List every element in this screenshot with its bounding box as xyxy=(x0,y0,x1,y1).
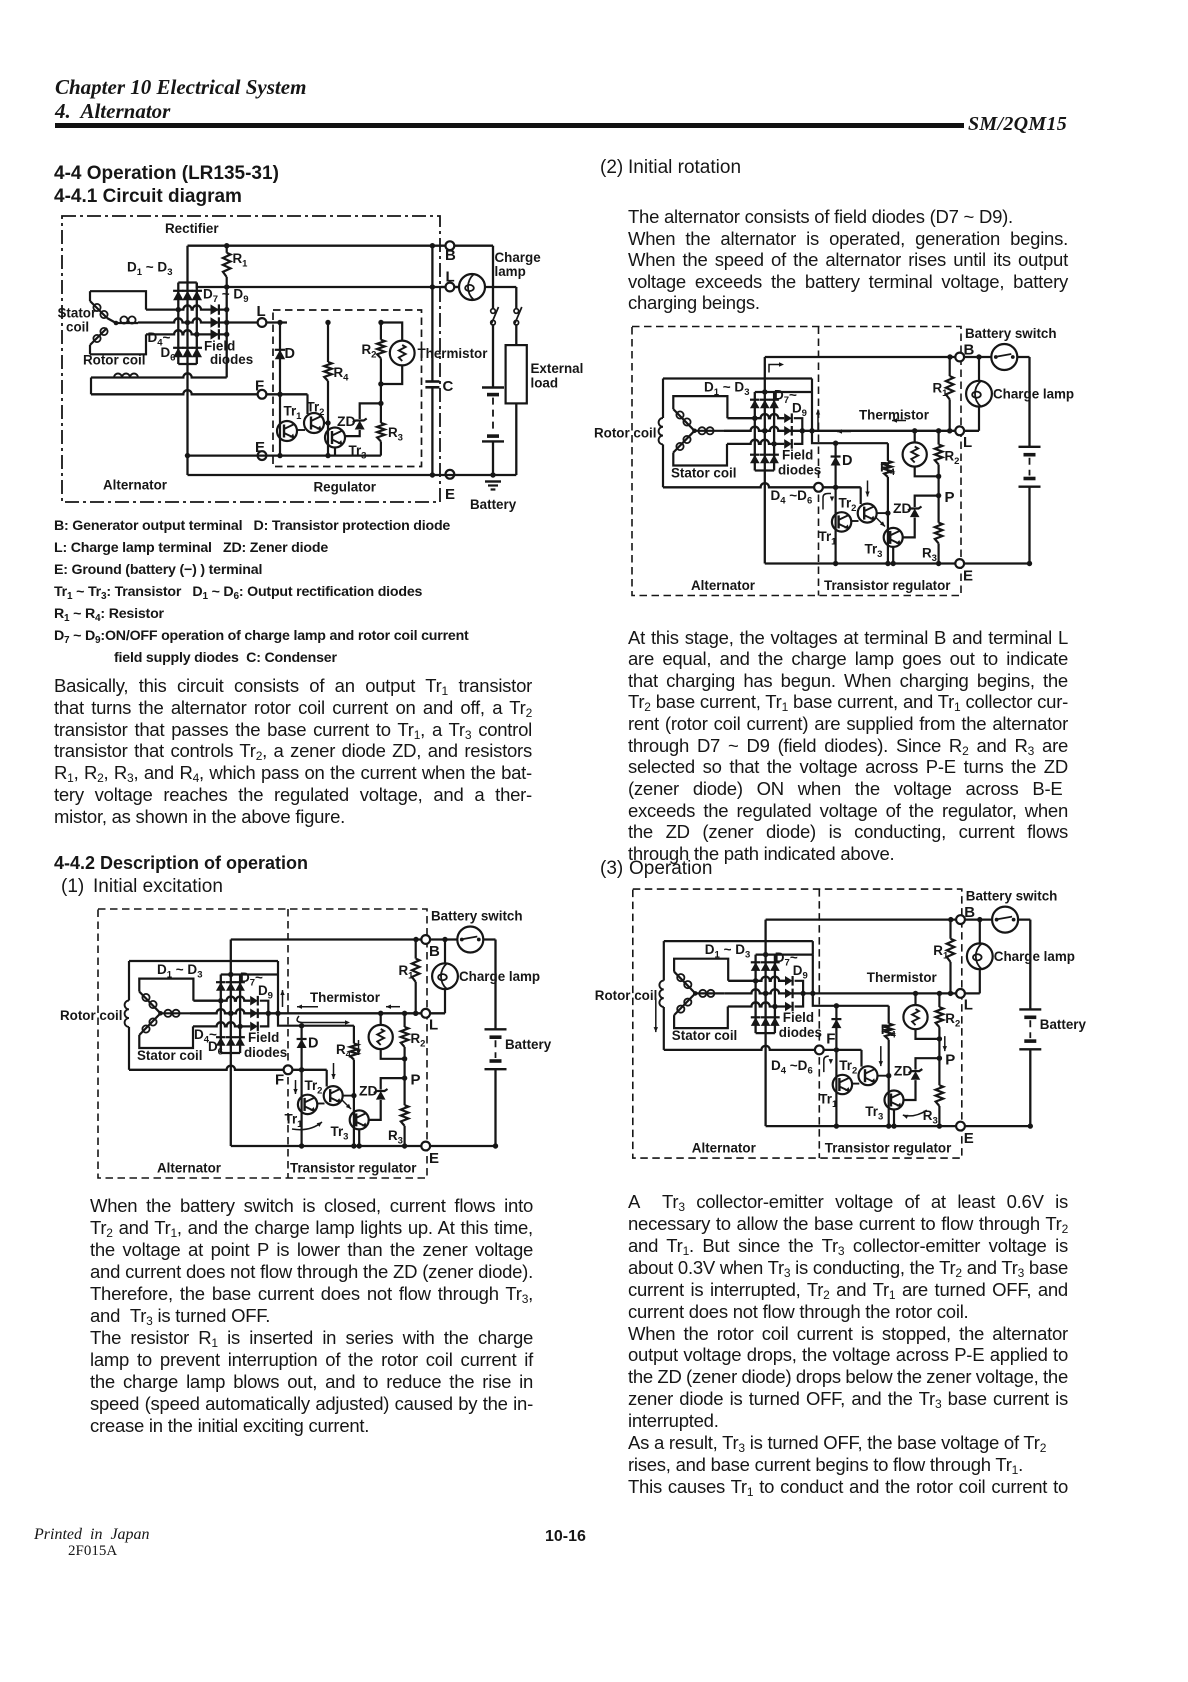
circuit2: diode D1 xyxy=(216,982,226,991)
terminal E (alternator) xyxy=(446,470,455,479)
wire: B output line (top) xyxy=(432,245,493,247)
circuit3: terminal F xyxy=(814,483,823,492)
circuit3: diode D1 xyxy=(750,400,760,409)
circuit3: current flow arrows xyxy=(769,365,782,373)
svg-text:F: F xyxy=(826,1031,835,1048)
circuit2: terminal B xyxy=(421,935,430,944)
circuit3: field diode D9 xyxy=(784,439,792,449)
circuit3: zener diode ZD xyxy=(915,496,939,507)
circuit2: zener diode ZD xyxy=(381,1078,405,1089)
svg-text:ZD: ZD xyxy=(894,1063,913,1079)
circuit3: L node to regulator top rail xyxy=(812,431,888,443)
svg-text:Thermistor: Thermistor xyxy=(867,970,938,985)
circuit3: terminal E xyxy=(765,562,1030,564)
circuit4: transistor Tr3 xyxy=(885,1091,904,1110)
circuit4: diode D3 xyxy=(770,962,780,971)
regulator dashed box xyxy=(273,310,422,467)
outer alternator assembly box (dash-dot) xyxy=(62,216,440,502)
thermistor xyxy=(390,341,415,366)
svg-text:P: P xyxy=(945,1052,955,1069)
circuit4: transistor Tr1 xyxy=(833,1075,852,1094)
transistor Tr3 xyxy=(325,428,345,448)
transistor Tr2 xyxy=(304,413,324,433)
circuit2: stator coil xyxy=(139,979,193,1001)
svg-text:E: E xyxy=(964,1130,974,1147)
circuit3: F line (internals box bottom) xyxy=(663,483,861,487)
circuit4: B line xyxy=(766,918,1031,920)
svg-text:B: B xyxy=(964,904,975,921)
circuit3: Tr links xyxy=(851,520,858,522)
circuit4: terminal B xyxy=(956,915,965,924)
wire: F to Tr2 xyxy=(277,392,282,397)
circuit3: diode D5 xyxy=(760,455,770,464)
wire: stator phase row 1 xyxy=(146,305,227,309)
circuit2: resistor R2 xyxy=(404,1013,406,1027)
svg-text:Stator coil: Stator coil xyxy=(672,1028,737,1043)
wire: bridge positive link xyxy=(197,283,227,288)
circuit4: bridge+ tie to L xyxy=(812,941,814,955)
svg-text:Transistor regulator: Transistor regulator xyxy=(825,1141,952,1156)
resistor R1 xyxy=(226,246,228,253)
svg-text:Battery switch: Battery switch xyxy=(966,889,1058,904)
circuit2: terminal F xyxy=(284,1065,293,1074)
stator coil xyxy=(90,291,146,309)
wire: battery branch xyxy=(492,246,494,309)
circuit4: field diode D9 xyxy=(785,1002,793,1012)
circuit3: diode D3 xyxy=(769,400,779,409)
wire: stator phase row 2 (to L terminal) xyxy=(138,318,287,322)
circuit4: Tr links xyxy=(852,1083,859,1085)
circuit3: phase row 3 xyxy=(727,440,784,444)
circuit4: resistor R3 xyxy=(938,1058,940,1085)
circuit2: phase row 1 xyxy=(193,997,250,1001)
circuit3: ground rail dots xyxy=(833,561,838,566)
svg-text:Tr3: Tr3 xyxy=(865,1104,883,1123)
circuit3: diode D2 xyxy=(760,400,770,409)
circuit4: rotor coil xyxy=(659,981,663,1007)
circuit2: thermistor xyxy=(380,1013,382,1025)
circuit4: terminal F xyxy=(815,1046,824,1055)
zener diode ZD xyxy=(378,401,383,406)
circuit2: transistor Tr3 xyxy=(350,1110,369,1129)
diode D4 xyxy=(173,348,183,357)
circuit2: field diode D7 xyxy=(250,996,258,1006)
circuit2: node P xyxy=(402,1075,407,1080)
circuit4: ground rail dots xyxy=(834,1123,839,1128)
circuit2: L node to regulator top rail xyxy=(278,1013,354,1025)
circuit2: alternator internals box xyxy=(128,961,130,1001)
wire: regulator ground rail xyxy=(188,455,381,457)
circuit4: F line (internals box bottom) xyxy=(664,1046,862,1050)
circuit2: transistor Tr2 xyxy=(324,1086,343,1105)
field diode D9 xyxy=(211,329,219,339)
circuit4: B feed / middle rail xyxy=(764,920,766,1127)
circuit4: L node to regulator top rail xyxy=(813,993,889,1005)
circuit4: diode D5 xyxy=(761,1017,771,1026)
battery xyxy=(482,386,504,388)
circuit3: field diode D8 xyxy=(784,426,792,436)
circuit4: diode D2 xyxy=(761,962,771,971)
circuit4: stator coil xyxy=(674,959,728,981)
wire: field diode output rail xyxy=(226,287,228,378)
circuit4: rectifier bridge D1~D6 xyxy=(756,953,813,955)
svg-text:Tr1: Tr1 xyxy=(819,1092,838,1111)
circuit3: terminal B xyxy=(955,353,964,362)
circuit3: transistor Tr1 xyxy=(832,512,851,531)
circuit3: outer dashed box xyxy=(632,327,961,596)
circuit4: diode D6 xyxy=(770,1017,780,1026)
circuit4: terminal E xyxy=(766,1125,1031,1127)
circuit3: field diode D7 xyxy=(784,413,792,423)
circuit2: ground rail dots xyxy=(299,1143,304,1148)
circuit3: F to Tr2 xyxy=(860,487,862,504)
circuit3: alternator internals box xyxy=(662,379,664,419)
external load xyxy=(506,345,527,403)
svg-text:Field: Field xyxy=(783,1010,814,1025)
circuit4: field diode D7 xyxy=(785,976,793,986)
circuit3: node P xyxy=(936,493,941,498)
circuit2: diode D6 xyxy=(235,1037,245,1046)
circuit4: alternator/regulator divider (dashed) xyxy=(818,889,820,1158)
circuit3: resistor R3 xyxy=(937,496,939,523)
circuit4: outer dashed box xyxy=(633,889,962,1158)
field diode D8 xyxy=(211,317,219,327)
svg-text:Rotor coil: Rotor coil xyxy=(595,988,658,1003)
wire: stator phase row 3 xyxy=(146,330,227,334)
circuit2: alternator/regulator divider (dashed) xyxy=(287,909,289,1178)
circuit3: stator coil xyxy=(673,396,727,418)
resistor R4 xyxy=(327,323,329,363)
circuit4: phase row 1 xyxy=(728,977,785,981)
circuit4: zener diode ZD xyxy=(916,1058,940,1069)
circuit2: F line (internals box bottom) xyxy=(129,1066,327,1070)
circuit3: phase row 1 xyxy=(727,414,784,418)
circuit4: alternator internals box xyxy=(663,941,665,981)
circuit2: field diode D8 xyxy=(250,1009,258,1019)
circuit4: field diode D8 xyxy=(785,989,793,999)
circuit2: L line xyxy=(190,1009,445,1013)
circuit2: rotor coil xyxy=(125,1001,129,1027)
circuit4: phase row 2 xyxy=(763,991,768,996)
wire: Tr1-Tr2 link xyxy=(297,429,305,431)
terminal F (regulator) xyxy=(258,390,267,399)
wire: Tr2 to R4 xyxy=(324,422,328,424)
circuit4: diode D (protection) xyxy=(835,1006,837,1126)
diode D3 xyxy=(192,291,202,300)
circuit3: bridge+ tie to L xyxy=(811,379,813,393)
circuit2: F to Tr2 xyxy=(326,1070,328,1087)
circuit4: resistor R4 xyxy=(888,1006,890,1024)
circuit2: diode D (protection) xyxy=(301,1026,303,1146)
circuit2: phase row 2 xyxy=(228,1011,233,1016)
circuit2: Tr links xyxy=(317,1103,324,1105)
circuit2: field diode D9 xyxy=(250,1022,258,1032)
circuit3: diode D4 xyxy=(750,455,760,464)
circuit3: battery switch xyxy=(991,344,1017,370)
ground symbol xyxy=(485,480,501,482)
circuit3: B feed / middle rail xyxy=(764,357,766,564)
svg-text:D4 ~D6: D4 ~D6 xyxy=(771,1058,813,1077)
circuit4: battery xyxy=(1029,920,1031,1010)
circuit4: phase row 3 xyxy=(728,1002,785,1006)
circuit3: B line xyxy=(765,356,1030,358)
circuit3: resistor R2 xyxy=(937,431,939,445)
circuit3: thermistor xyxy=(914,431,916,443)
circuit3: transistor Tr3 xyxy=(884,528,903,547)
terminal E (regulator) xyxy=(258,451,267,460)
resistor R3 xyxy=(380,403,382,423)
svg-text:R1: R1 xyxy=(933,943,949,962)
terminal B (alternator) xyxy=(446,241,455,250)
circuit2: B line xyxy=(231,938,496,940)
circuit3: resistor R4 xyxy=(887,443,889,461)
diode D2 xyxy=(182,291,192,300)
circuit2: diode D5 xyxy=(226,1037,236,1046)
wire: external load branch xyxy=(515,287,517,309)
diode D5 xyxy=(182,348,192,357)
circuit3: resistor R1 xyxy=(949,357,951,376)
rotor coil xyxy=(91,373,227,377)
transistor protection diode D xyxy=(279,323,281,456)
circuit2: current flow arrows xyxy=(282,990,284,1007)
circuit2: transistor Tr1 xyxy=(298,1095,317,1114)
circuit2: rectifier bridge D1~D6 xyxy=(221,973,278,975)
circuit3: battery xyxy=(1028,357,1030,447)
circuit2: diode D4 xyxy=(216,1037,226,1046)
transistor Tr1 xyxy=(277,421,297,441)
circuit4: terminal L xyxy=(956,989,965,998)
svg-text:D9: D9 xyxy=(793,963,808,982)
svg-text:diodes: diodes xyxy=(779,1025,822,1040)
circuit2: diode D2 xyxy=(226,982,236,991)
circuit3: L line xyxy=(724,427,979,431)
circuit2: resistor R4 xyxy=(353,1026,355,1044)
circuit4: L line xyxy=(725,989,980,993)
circuit4: node P xyxy=(937,1056,942,1061)
diode D6 xyxy=(192,348,202,357)
load switch contacts xyxy=(514,309,519,314)
rectifier box xyxy=(188,245,433,247)
circuit2: B feed / middle rail xyxy=(230,940,232,1147)
circuit3: charge lamp xyxy=(978,357,980,381)
circuit4: battery switch xyxy=(992,907,1018,933)
circuit2: phase row 3 xyxy=(193,1022,250,1026)
terminal L (alternator) xyxy=(446,283,455,292)
circuit3: diode D (protection) xyxy=(834,443,836,563)
circuit4: diode D1 xyxy=(751,962,761,971)
circuit2: diode D3 xyxy=(235,982,245,991)
circuit3: rotor coil xyxy=(659,418,663,444)
svg-text:Battery: Battery xyxy=(1040,1017,1087,1032)
circuit4: diode D4 xyxy=(751,1017,761,1026)
field diode D7 xyxy=(211,304,219,314)
circuit2: battery xyxy=(494,940,496,1030)
svg-text:L: L xyxy=(964,997,973,1014)
svg-text:Alternator: Alternator xyxy=(692,1141,757,1156)
svg-text:R2: R2 xyxy=(945,1011,960,1030)
circuit4: transistor Tr2 xyxy=(859,1066,878,1085)
circuit4: thermistor xyxy=(914,993,916,1005)
circuit4: current flow arrows xyxy=(655,998,657,1032)
circuit2: charge lamp xyxy=(444,940,446,964)
circuit3: alternator/regulator divider (dashed) xyxy=(818,327,820,596)
charge lamp xyxy=(459,274,485,300)
circuit2: outer dashed box xyxy=(98,909,427,1178)
circuit4: charge lamp xyxy=(979,920,981,944)
circuit3: terminal L xyxy=(955,426,964,435)
circuit2: resistor R1 xyxy=(415,940,417,959)
circuit3: rectifier bridge D1~D6 xyxy=(755,391,812,393)
wire: rotor to F terminal xyxy=(91,390,308,394)
battery switch contacts xyxy=(491,309,496,314)
circuit2: resistor R3 xyxy=(404,1078,406,1105)
circuit4: resistor R1 xyxy=(949,920,951,939)
terminal L (regulator) xyxy=(258,318,267,327)
wire: regulator top L rail xyxy=(277,320,282,325)
circuit2: terminal L xyxy=(421,1009,430,1018)
wire: E ground line xyxy=(432,474,516,476)
circuit3: transistor Tr2 xyxy=(858,504,877,523)
diode bridge rails D1~D6 xyxy=(177,283,179,365)
svg-text:Charge lamp: Charge lamp xyxy=(994,949,1075,964)
resistor R2 xyxy=(380,323,382,340)
circuit3: phase row 2 xyxy=(762,428,767,433)
diode D1 xyxy=(173,291,183,300)
wire: L line from bridge+ to charge lamp xyxy=(227,286,459,288)
circuit4: resistor R2 xyxy=(938,993,940,1007)
circuit2: battery switch xyxy=(457,927,483,953)
circuit2: bridge+ tie to L xyxy=(277,961,279,975)
circuit2: terminal E xyxy=(231,1145,496,1147)
condenser C on right edge of rectifier box xyxy=(431,246,433,382)
circuit4: F to Tr2 xyxy=(860,1050,862,1067)
circuit3: diode D6 xyxy=(769,455,779,464)
